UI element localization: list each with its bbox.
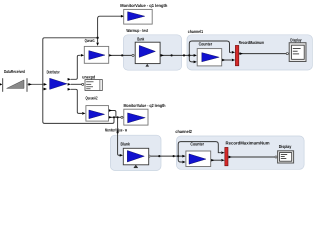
svg-text:Distributor: Distributor bbox=[47, 70, 60, 75]
svg-text:Blank: Blank bbox=[121, 141, 131, 146]
svg-text:MonitorValue - w: MonitorValue - w bbox=[105, 128, 127, 133]
svg-text:Warmup - test: Warmup - test bbox=[126, 28, 148, 33]
svg-text:Counter: Counter bbox=[199, 42, 213, 47]
svg-text:RecordMaximum: RecordMaximum bbox=[239, 40, 264, 45]
svg-text:MonitorValue - q2 length: MonitorValue - q2 length bbox=[124, 103, 166, 108]
svg-text:unexpd: unexpd bbox=[82, 75, 95, 80]
svg-text:Counter: Counter bbox=[190, 142, 204, 147]
svg-text:MonitorValue - q1 length: MonitorValue - q1 length bbox=[120, 3, 167, 8]
svg-text:Display: Display bbox=[279, 144, 292, 149]
svg-text:Display: Display bbox=[290, 38, 302, 43]
svg-text:Bank: Bank bbox=[137, 36, 144, 41]
svg-text:Queue1: Queue1 bbox=[85, 38, 95, 43]
svg-text:channel2: channel2 bbox=[175, 129, 192, 134]
svg-text:RecordMaximumNum: RecordMaximumNum bbox=[226, 140, 270, 145]
svg-text:channel1: channel1 bbox=[188, 29, 204, 34]
svg-text:DataReceived: DataReceived bbox=[4, 69, 25, 74]
svg-text:QueueA2: QueueA2 bbox=[86, 96, 98, 101]
